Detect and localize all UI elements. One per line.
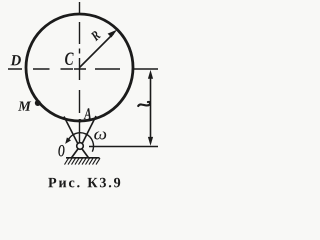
label M <box>18 102 31 111</box>
label D <box>10 55 20 65</box>
label C <box>65 53 74 65</box>
pivot pin O <box>77 143 84 150</box>
ground line <box>66 157 100 159</box>
point A dot on rim <box>78 119 81 122</box>
label l (rotated script ell) <box>138 102 150 106</box>
bracket left leg (rim to pin) <box>64 117 78 144</box>
label R (rotated along radius) <box>91 31 101 41</box>
support left leg <box>72 149 78 158</box>
caption <box>48 178 120 188</box>
dimension line l <box>150 73 152 143</box>
vertical center line (dash-dot) <box>79 2 81 142</box>
label A <box>84 108 92 119</box>
horizontal center line (dash-dot through D and C) <box>8 68 120 70</box>
ground hatching <box>65 158 101 164</box>
dimension arrow down <box>148 137 153 146</box>
point M dot on rim <box>35 100 41 106</box>
bracket right leg (rim to pin) <box>82 116 96 144</box>
support right leg <box>82 149 88 158</box>
label O <box>58 145 64 157</box>
dimension arrow up <box>148 70 153 79</box>
rotation arrowhead <box>65 137 71 144</box>
radius line R with arrow <box>80 34 114 68</box>
wheel rim (circle, center C) <box>26 14 133 121</box>
top extension line <box>133 68 158 70</box>
rotation arc omega <box>68 133 94 152</box>
bottom extension line <box>89 146 158 148</box>
label omega <box>94 131 106 139</box>
